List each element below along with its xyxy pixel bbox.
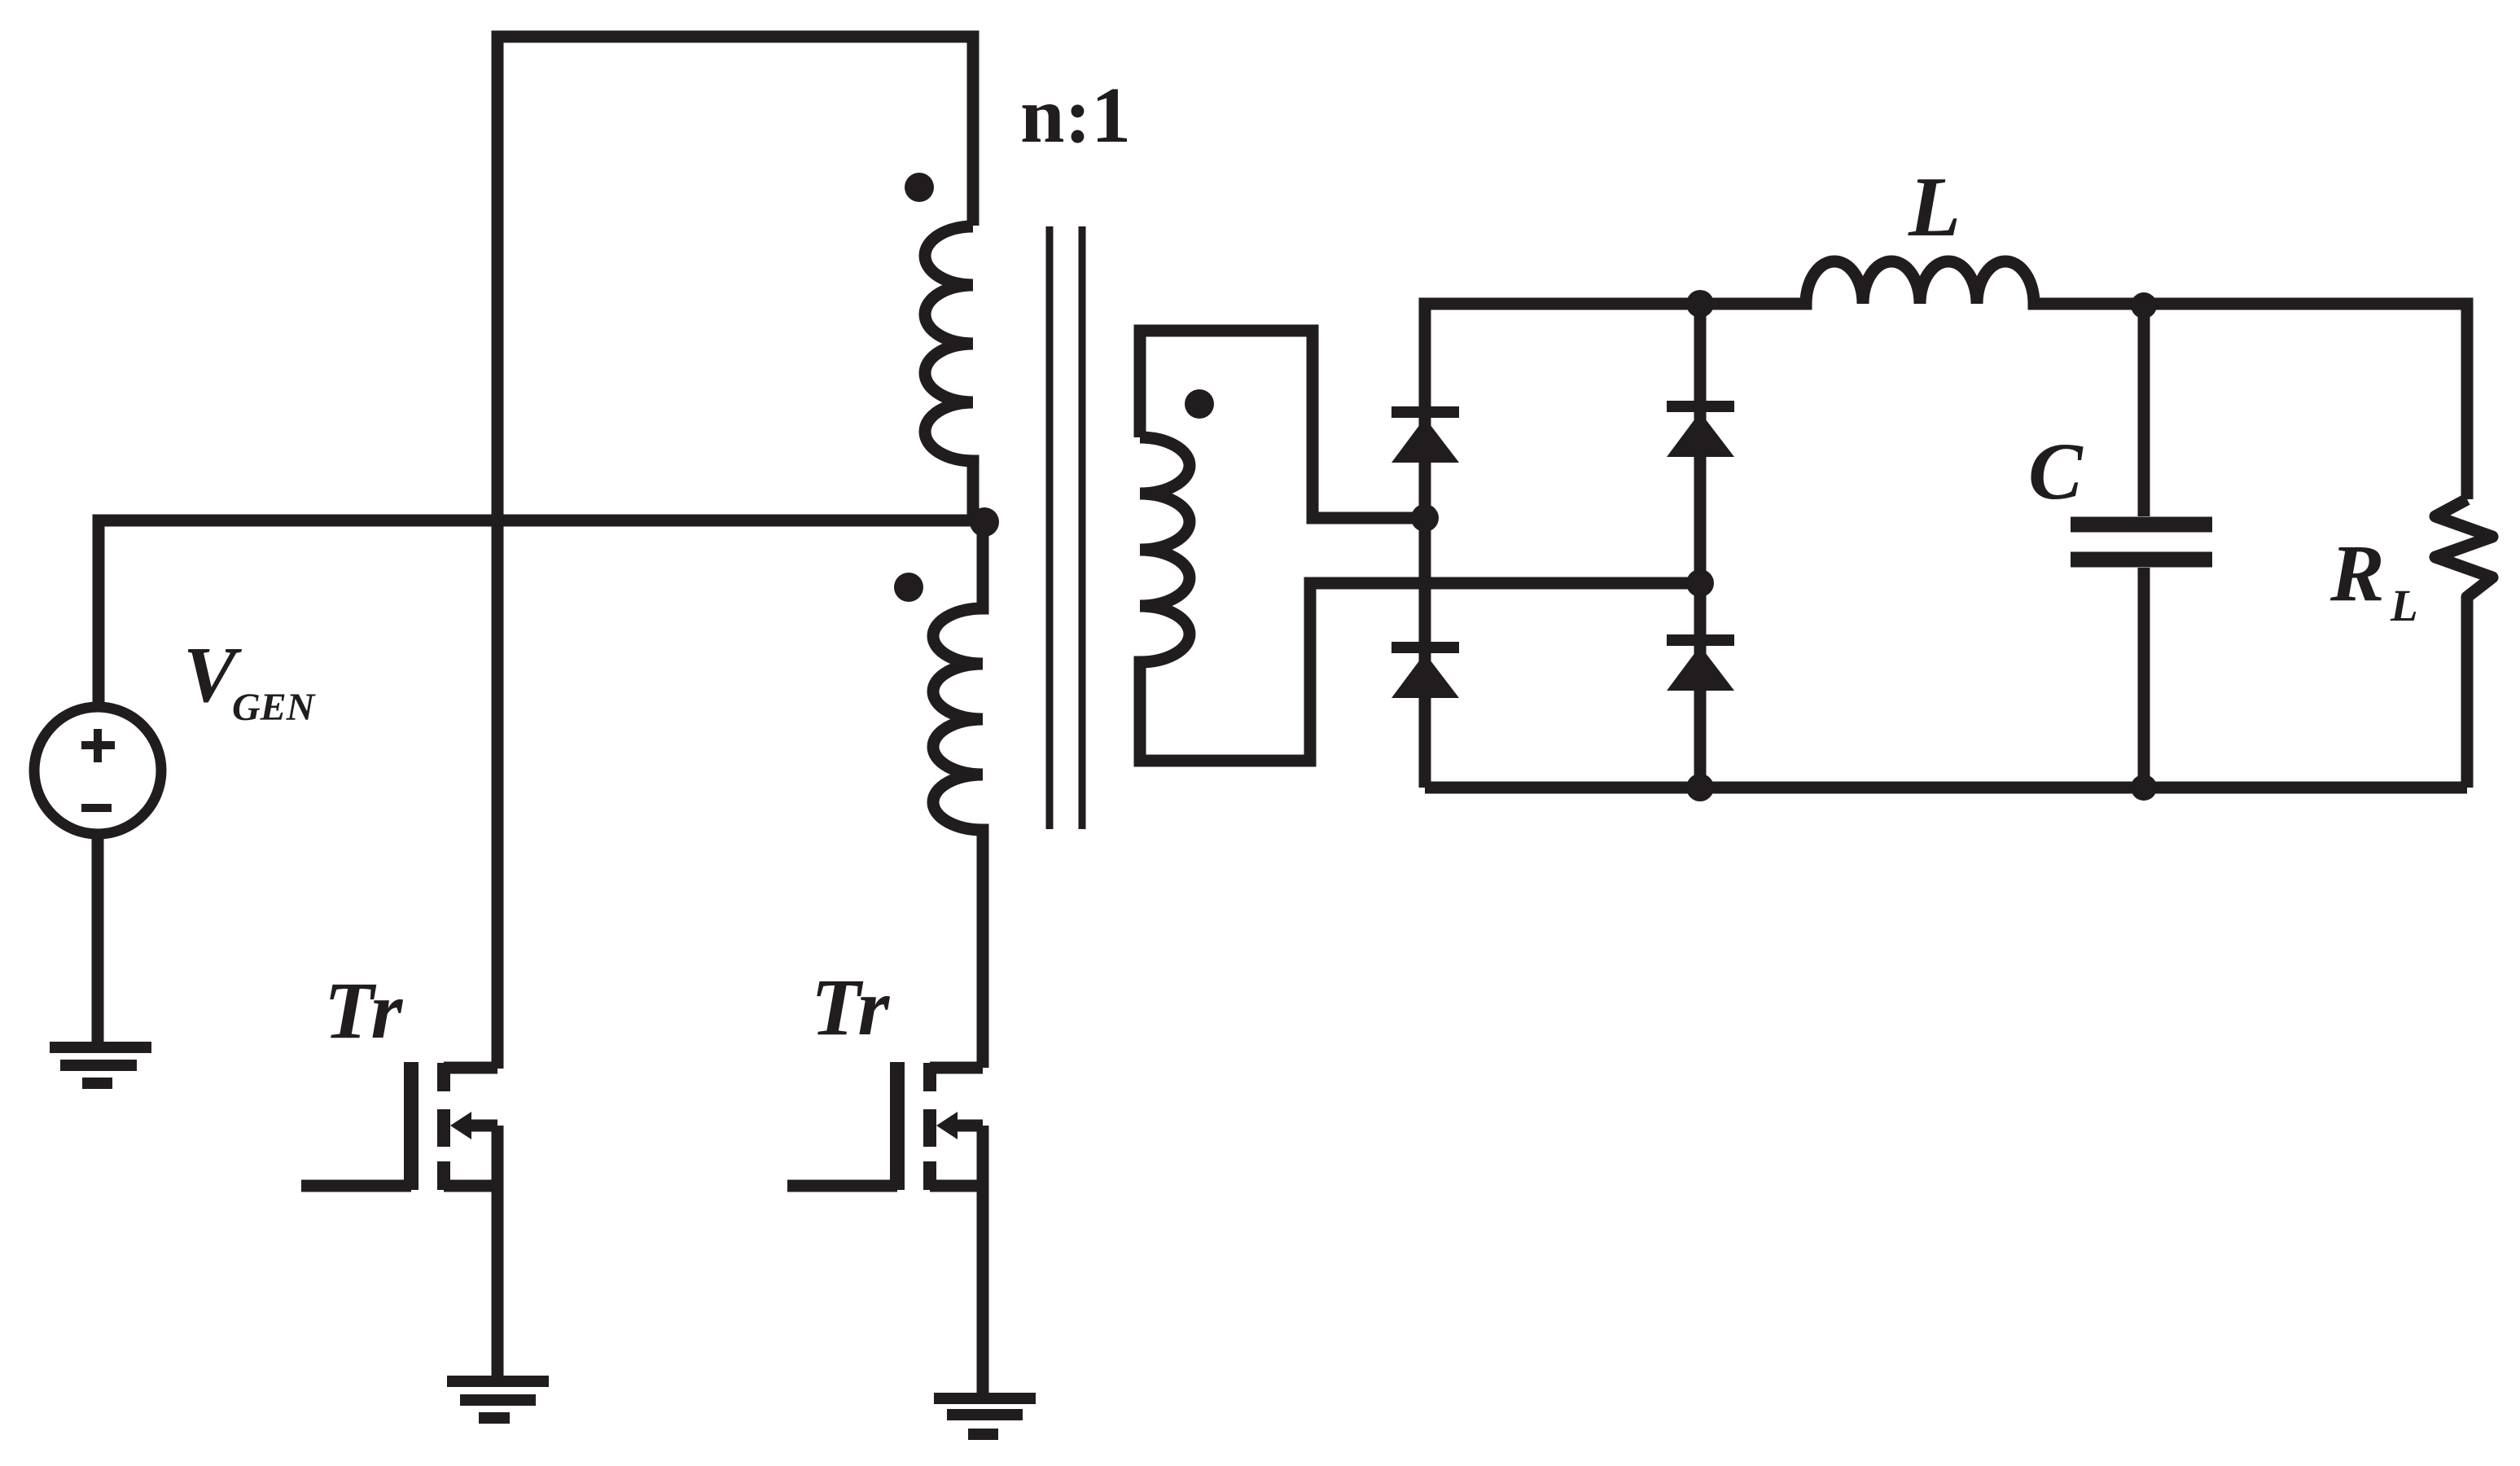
transformer primary lower winding with drop to Tr2 drain <box>933 522 983 1068</box>
junction node bridge right / secondary bottom <box>1686 569 1714 597</box>
label Tr right <box>811 962 890 1052</box>
svg-text:L: L <box>1908 159 1961 254</box>
inductor L <box>1806 261 2034 304</box>
diode D1 upper-left <box>1391 412 1459 463</box>
junction node capacitor top <box>2131 292 2157 318</box>
transistor Tr2 (right MOSFET) <box>787 1062 983 1393</box>
source wire <box>977 1186 989 1393</box>
gate bar <box>404 1062 419 1190</box>
label R_L <box>2329 528 2418 630</box>
transformer secondary winding <box>1140 331 1425 518</box>
voltage source V_GEN <box>34 707 161 834</box>
svg-text:GEN: GEN <box>232 686 317 729</box>
gate lead <box>301 1180 411 1192</box>
wire center-tap horizontal and drop to source circle <box>99 520 984 709</box>
wire bridge right column <box>1694 304 1707 788</box>
drain bar <box>930 1062 983 1074</box>
polarity dot secondary <box>1185 389 1214 419</box>
label V_GEN <box>183 631 317 729</box>
transformer core lines <box>1050 226 1082 829</box>
resistor R_L zigzag <box>2435 499 2492 788</box>
transformer primary upper winding <box>925 226 973 520</box>
diode D2 lower-left <box>1391 647 1459 698</box>
gate bar <box>890 1062 905 1190</box>
transistor Tr1 (left MOSFET) <box>301 1062 497 1376</box>
junction node center tap <box>970 507 999 537</box>
channel segments <box>437 1063 450 1190</box>
wire bottom rail <box>1425 782 2467 794</box>
ground (Tr2) <box>934 1398 1036 1434</box>
gate lead <box>787 1180 897 1192</box>
label C <box>2028 426 2084 516</box>
polarity dot upper primary <box>905 173 934 202</box>
source bar <box>930 1180 983 1192</box>
wire top rail with left drain drop and right drop to primary <box>497 37 973 1069</box>
ground (source) <box>50 1047 151 1083</box>
svg-text:Tr: Tr <box>811 962 890 1052</box>
label Tr left <box>324 965 403 1056</box>
label n:1 <box>1020 72 1131 160</box>
junction node capacitor bottom <box>2131 775 2157 801</box>
diode D3 upper-right <box>1667 406 1734 457</box>
svg-text:R: R <box>2329 528 2385 618</box>
ground (Tr1) <box>447 1381 549 1418</box>
svg-text:n:1: n:1 <box>1020 72 1131 160</box>
svg-text:C: C <box>2028 426 2084 516</box>
junction node bridge right top <box>1686 290 1714 318</box>
label L <box>1908 159 1961 254</box>
wire bridge left column and top wire to inductor <box>1425 304 1806 788</box>
svg-text:Tr: Tr <box>324 965 403 1056</box>
junction node bridge right bottom <box>1686 774 1714 801</box>
wire inductor to load top corner <box>2034 304 2467 499</box>
source bar <box>444 1180 497 1192</box>
drain bar <box>444 1062 497 1074</box>
body arrow <box>958 1126 983 1186</box>
svg-text:L: L <box>2390 581 2418 630</box>
body arrow <box>471 1126 497 1186</box>
source wire <box>492 1186 504 1376</box>
diode D4 lower-right <box>1667 640 1734 691</box>
polarity dot lower primary <box>894 573 923 602</box>
wire source to ground <box>92 834 104 1047</box>
channel segments <box>923 1063 936 1190</box>
junction node bridge left / secondary top <box>1411 504 1439 532</box>
capacitor C <box>2138 305 2150 516</box>
